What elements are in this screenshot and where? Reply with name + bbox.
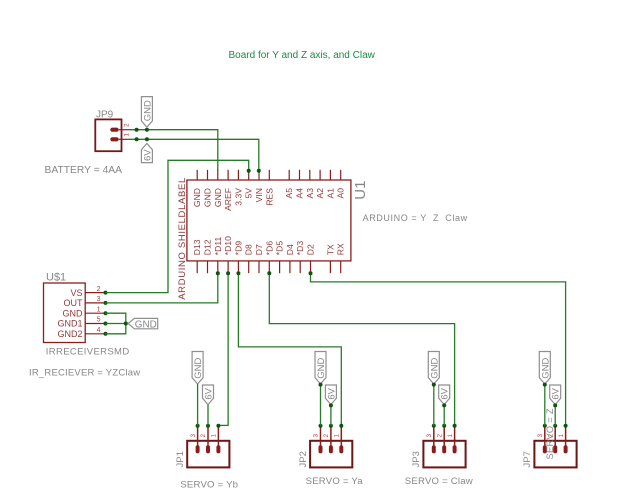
svg-text:RX: RX [336,243,346,255]
svg-text:2: 2 [97,286,101,293]
svg-text:D2: D2 [306,244,316,255]
svg-text:A5: A5 [284,188,294,199]
svg-text:5V: 5V [244,188,254,199]
svg-text:GND1: GND1 [57,319,82,329]
svg-text:BATTERY = 4AA: BATTERY = 4AA [45,165,123,176]
svg-text:SERVO = Z: SERVO = Z [545,408,555,459]
svg-text:ARDUINO = Y Z Claw: ARDUINO = Y Z Claw [363,213,468,223]
svg-text:OUT: OUT [64,298,84,308]
svg-text:2: 2 [437,433,443,437]
svg-text:GND: GND [135,319,157,330]
svg-text:5: 5 [97,317,101,324]
svg-text:GND: GND [213,188,223,207]
svg-text:3: 3 [314,433,320,437]
svg-text:1: 1 [559,433,565,437]
svg-text:GND: GND [63,308,84,318]
svg-text:3.3V: 3.3V [233,188,243,206]
svg-text:VIN: VIN [254,188,264,202]
svg-text:RES: RES [264,188,274,206]
svg-text:TX: TX [325,244,335,255]
svg-text:*D3: *D3 [295,241,305,256]
svg-text:GND: GND [316,358,327,379]
svg-text:GND: GND [429,358,440,379]
svg-text:SERVO = Ya: SERVO = Ya [306,476,364,487]
svg-text:GND2: GND2 [57,329,82,339]
svg-text:6V: 6V [142,149,153,161]
svg-text:GND: GND [540,358,551,379]
svg-text:6V: 6V [551,387,562,399]
svg-text:JP9: JP9 [96,110,114,121]
svg-text:A2: A2 [315,188,325,199]
svg-text:GND: GND [193,358,204,379]
svg-text:JP7: JP7 [522,451,533,467]
svg-text:1: 1 [448,433,454,437]
svg-text:3: 3 [97,296,101,303]
svg-text:3: 3 [538,433,544,437]
svg-text:6V: 6V [440,387,451,399]
svg-text:4: 4 [97,327,101,334]
svg-text:ARDUINO SHIELDLABEL: ARDUINO SHIELDLABEL [177,177,188,300]
svg-text:1: 1 [97,306,101,313]
svg-text:6V: 6V [204,387,215,399]
svg-text:1: 1 [212,433,218,437]
svg-text:6V: 6V [326,387,337,399]
svg-text:D7: D7 [254,244,264,255]
svg-text:*D9: *D9 [233,241,243,256]
svg-text:JP2: JP2 [298,451,309,467]
svg-text:2: 2 [124,123,131,127]
svg-text:1: 1 [335,433,341,437]
svg-text:U$1: U$1 [46,272,66,284]
svg-text:D8: D8 [244,244,254,255]
svg-text:U1: U1 [352,181,369,200]
svg-text:A3: A3 [305,188,315,199]
svg-text:AREF: AREF [223,188,233,211]
svg-text:JP1: JP1 [175,451,186,467]
svg-text:SERVO = Claw: SERVO = Claw [405,476,473,487]
svg-text:JP3: JP3 [411,451,422,467]
svg-text:D4: D4 [285,244,295,255]
svg-text:3: 3 [191,433,197,437]
svg-text:*D6: *D6 [264,241,274,256]
svg-text:GND: GND [203,188,213,207]
svg-text:*D11: *D11 [213,237,223,256]
svg-text:3: 3 [427,433,433,437]
svg-text:2: 2 [201,433,207,437]
svg-text:IRRECEIVERSMD: IRRECEIVERSMD [46,347,130,358]
svg-text:A4: A4 [295,188,305,199]
svg-text:GND: GND [192,188,202,207]
svg-text:A0: A0 [336,188,346,199]
svg-text:*D5: *D5 [275,241,285,256]
svg-text:D12: D12 [203,239,213,255]
svg-text:Board for Y and Z axis, and Cl: Board for Y and Z axis, and Claw [229,50,376,61]
svg-text:SERVO = Yb: SERVO = Yb [180,480,238,491]
svg-text:D13: D13 [192,239,202,255]
svg-text:2: 2 [324,433,330,437]
svg-text:1: 1 [124,133,131,137]
svg-text:A1: A1 [325,188,335,199]
svg-text:*D10: *D10 [223,236,233,255]
svg-text:IR_RECIEVER = YZClaw: IR_RECIEVER = YZClaw [29,367,140,378]
svg-text:VS: VS [70,288,82,298]
svg-text:GND: GND [142,100,153,121]
